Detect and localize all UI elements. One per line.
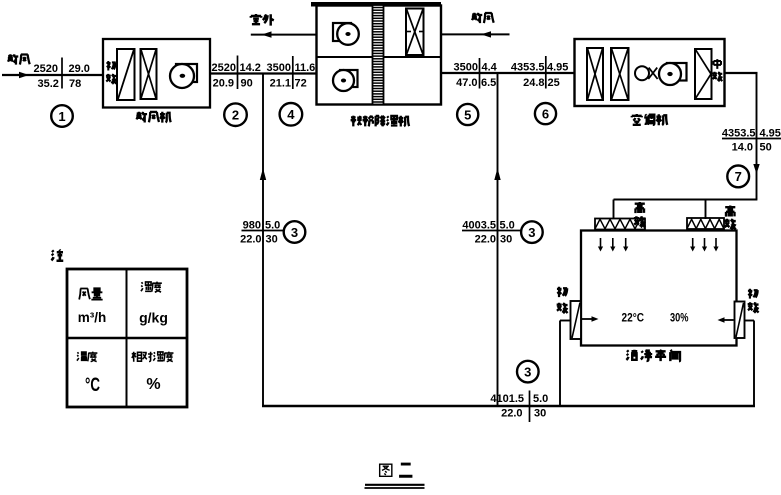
AHU coil 2 (X box) bbox=[611, 48, 629, 100]
svg-text:35.2: 35.2 bbox=[38, 78, 59, 90]
svg-text:22.0: 22.0 bbox=[501, 408, 522, 420]
svg-text:4: 4 bbox=[287, 107, 295, 122]
node 6 values 4353.5|4.95 / 24.8|25 bbox=[511, 56, 569, 89]
legend 温度 C bbox=[77, 352, 100, 396]
process fan (bottom chamber) bbox=[333, 70, 358, 91]
label 中效 bbox=[712, 59, 722, 81]
svg-text:11.6: 11.6 bbox=[295, 62, 316, 74]
svg-text:21.1: 21.1 bbox=[270, 78, 291, 90]
svg-text:22.0: 22.0 bbox=[475, 234, 496, 246]
label 室外 bbox=[251, 14, 274, 26]
header drop to left HEPA bbox=[613, 200, 615, 220]
fresh air unit box 新风机 bbox=[103, 39, 210, 108]
svg-text:47.0: 47.0 bbox=[456, 77, 477, 89]
svg-text:14.2: 14.2 bbox=[240, 62, 261, 74]
wire dehumidifier to AHU bbox=[441, 72, 575, 74]
svg-text:4353.5: 4353.5 bbox=[722, 128, 756, 140]
svg-text:4.4: 4.4 bbox=[482, 62, 498, 74]
svg-text:5.0: 5.0 bbox=[533, 393, 548, 405]
svg-text:2520: 2520 bbox=[34, 63, 58, 75]
label 初效 side-left bbox=[557, 287, 568, 314]
arrowhead outdoor bbox=[262, 31, 272, 37]
humidifier nozzle bbox=[635, 66, 658, 80]
header drop to right HEPA bbox=[705, 200, 707, 220]
arrow into room right bbox=[718, 317, 734, 323]
side filter left 初效 bbox=[571, 301, 582, 339]
label 初效 inside unit bbox=[106, 61, 116, 84]
node 4 values 3500|11.6 / 21.1|72 bbox=[267, 56, 316, 90]
label 新风 (top-right) bbox=[472, 13, 494, 23]
primary filter (diagonal) bbox=[117, 49, 135, 100]
AHU fan bbox=[659, 63, 687, 85]
up arrowhead on middle riser bbox=[494, 168, 500, 180]
svg-text:30: 30 bbox=[500, 234, 512, 246]
wire regeneration fresh air (top right) bbox=[441, 33, 510, 35]
label 初效 side-right bbox=[748, 289, 759, 313]
fan of 新风机 bbox=[170, 64, 197, 88]
svg-text:5: 5 bbox=[464, 107, 471, 122]
AHU coil 1 (X box) bbox=[587, 48, 603, 100]
svg-text:22°C: 22°C bbox=[622, 313, 645, 325]
label 新风 (top-left) bbox=[8, 54, 30, 64]
svg-text:3500: 3500 bbox=[267, 62, 291, 74]
node 3c circle bbox=[517, 361, 539, 383]
return duct left leg bbox=[560, 321, 571, 407]
AHU box 空调机 bbox=[575, 39, 725, 106]
label 高效 left bbox=[634, 202, 645, 227]
svg-text:30%: 30% bbox=[670, 313, 689, 325]
svg-text:4.95: 4.95 bbox=[547, 62, 568, 74]
node 1 circle bbox=[51, 105, 73, 127]
svg-text:4353.5: 4353.5 bbox=[511, 62, 545, 74]
medium filter 中效 bbox=[695, 49, 712, 99]
HEPA filter right (zigzag) bbox=[687, 218, 724, 229]
up arrowhead on left riser bbox=[260, 168, 266, 180]
legend 风量 m3/h bbox=[78, 288, 107, 325]
title underline bbox=[365, 485, 425, 488]
svg-text:1: 1 bbox=[58, 109, 65, 124]
regeneration fan (top chamber) bbox=[333, 23, 359, 45]
rotary dehumidifier box 转轮除湿机 bbox=[317, 6, 442, 105]
chamber divider bbox=[317, 56, 442, 58]
supply header above room bbox=[614, 199, 758, 201]
svg-text:6: 6 bbox=[542, 106, 549, 121]
svg-text:3500: 3500 bbox=[454, 62, 478, 74]
svg-text:30: 30 bbox=[534, 408, 546, 420]
svg-text:5.0: 5.0 bbox=[500, 220, 515, 232]
return duct bottom run bbox=[262, 405, 755, 408]
svg-text:24.8: 24.8 bbox=[523, 77, 544, 89]
svg-text:20.9: 20.9 bbox=[213, 78, 234, 90]
return duct right leg bbox=[745, 321, 755, 407]
svg-text:6.5: 6.5 bbox=[481, 77, 496, 89]
svg-text:30: 30 bbox=[266, 234, 278, 246]
node 7 circle bbox=[727, 166, 749, 188]
arrowhead regen inlet bbox=[481, 31, 491, 37]
svg-text:2520: 2520 bbox=[212, 62, 236, 74]
label 转轮除湿机 bbox=[351, 116, 409, 127]
legend table bbox=[67, 269, 187, 407]
return riser middle bbox=[497, 73, 499, 405]
arrow into room left bbox=[582, 316, 599, 322]
supply diffuser arrows left group bbox=[598, 238, 628, 252]
clean room box 洁净车间 bbox=[581, 231, 737, 346]
svg-text:4.95: 4.95 bbox=[760, 128, 781, 140]
node 5 circle bbox=[457, 104, 478, 125]
node 3c values 4101.5|5.0 / 22.0|30 bbox=[490, 391, 548, 423]
thick top edge of dehumidifier bbox=[311, 2, 441, 7]
regeneration heater coil (X box) bbox=[406, 9, 424, 56]
svg-text:50: 50 bbox=[760, 142, 772, 154]
supply drop (right) bbox=[756, 73, 758, 200]
wire to outdoor exhaust bbox=[251, 34, 317, 36]
node 3b values 4003.5|5.0 / 22.0|30 bbox=[462, 220, 522, 246]
node 2 values 2520|14.2 / 20.9|90 bbox=[212, 56, 261, 90]
svg-text:3: 3 bbox=[528, 225, 535, 240]
label 新风机 bbox=[136, 112, 170, 123]
svg-text:72: 72 bbox=[295, 78, 307, 90]
svg-text:3: 3 bbox=[291, 225, 298, 240]
svg-text:4003.5: 4003.5 bbox=[462, 220, 496, 232]
coil (X box) bbox=[141, 49, 157, 99]
svg-text:2: 2 bbox=[232, 108, 239, 123]
desiccant wheel bbox=[373, 5, 384, 105]
svg-text:22.0: 22.0 bbox=[240, 234, 261, 246]
svg-text:3: 3 bbox=[524, 364, 531, 379]
down arrowhead supply bbox=[753, 164, 759, 174]
HEPA filter left (zigzag) bbox=[595, 219, 645, 230]
supply wire AHU out bbox=[725, 72, 758, 74]
svg-text:90: 90 bbox=[241, 78, 253, 90]
room condition 22C 30% bbox=[622, 313, 689, 325]
svg-text:%: % bbox=[146, 376, 160, 393]
label 洁净车间 bbox=[626, 350, 680, 362]
wire unit to dehumidifier bbox=[210, 72, 317, 74]
svg-text:m³/h: m³/h bbox=[78, 310, 107, 325]
label 空调机 bbox=[632, 114, 667, 125]
svg-text:°C: °C bbox=[85, 375, 100, 396]
return riser (left) bbox=[262, 74, 264, 406]
title 图二 bbox=[380, 464, 413, 476]
node 3a values 980|5.0 / 22.0|30 bbox=[240, 220, 284, 246]
svg-text:7: 7 bbox=[735, 169, 742, 184]
svg-text:4101.5: 4101.5 bbox=[490, 393, 524, 405]
svg-text:25: 25 bbox=[548, 77, 560, 89]
svg-text:5.0: 5.0 bbox=[265, 220, 280, 232]
arrowhead inlet bbox=[19, 72, 29, 78]
node 5 values 3500|4.4 / 47.0|6.5 bbox=[454, 58, 498, 89]
node 1 values 2520|29.0 / 35.2|78 bbox=[34, 58, 90, 91]
legend 湿度 g/kg bbox=[139, 282, 168, 326]
side filter right 初效 bbox=[735, 302, 745, 339]
supply diffuser arrows right group bbox=[690, 238, 719, 252]
node 2 circle bbox=[224, 103, 247, 126]
wire: fresh-air inlet into 新风机 bbox=[2, 74, 103, 76]
note mark 注 bbox=[51, 250, 63, 261]
node 3a circle bbox=[284, 221, 306, 243]
svg-text:14.0: 14.0 bbox=[732, 142, 753, 154]
node 6 circle bbox=[535, 103, 556, 124]
legend 相对湿度 % bbox=[132, 352, 174, 393]
svg-text:78: 78 bbox=[69, 78, 81, 90]
label 高效 right bbox=[724, 206, 735, 230]
node 3b circle bbox=[521, 221, 543, 243]
node 7 values 4353.5|4.95 / 14.0|50 bbox=[722, 128, 781, 154]
svg-text:g/kg: g/kg bbox=[139, 310, 168, 326]
svg-text:980: 980 bbox=[243, 220, 261, 232]
svg-text:29.0: 29.0 bbox=[69, 63, 90, 75]
node 4 circle bbox=[280, 103, 303, 126]
